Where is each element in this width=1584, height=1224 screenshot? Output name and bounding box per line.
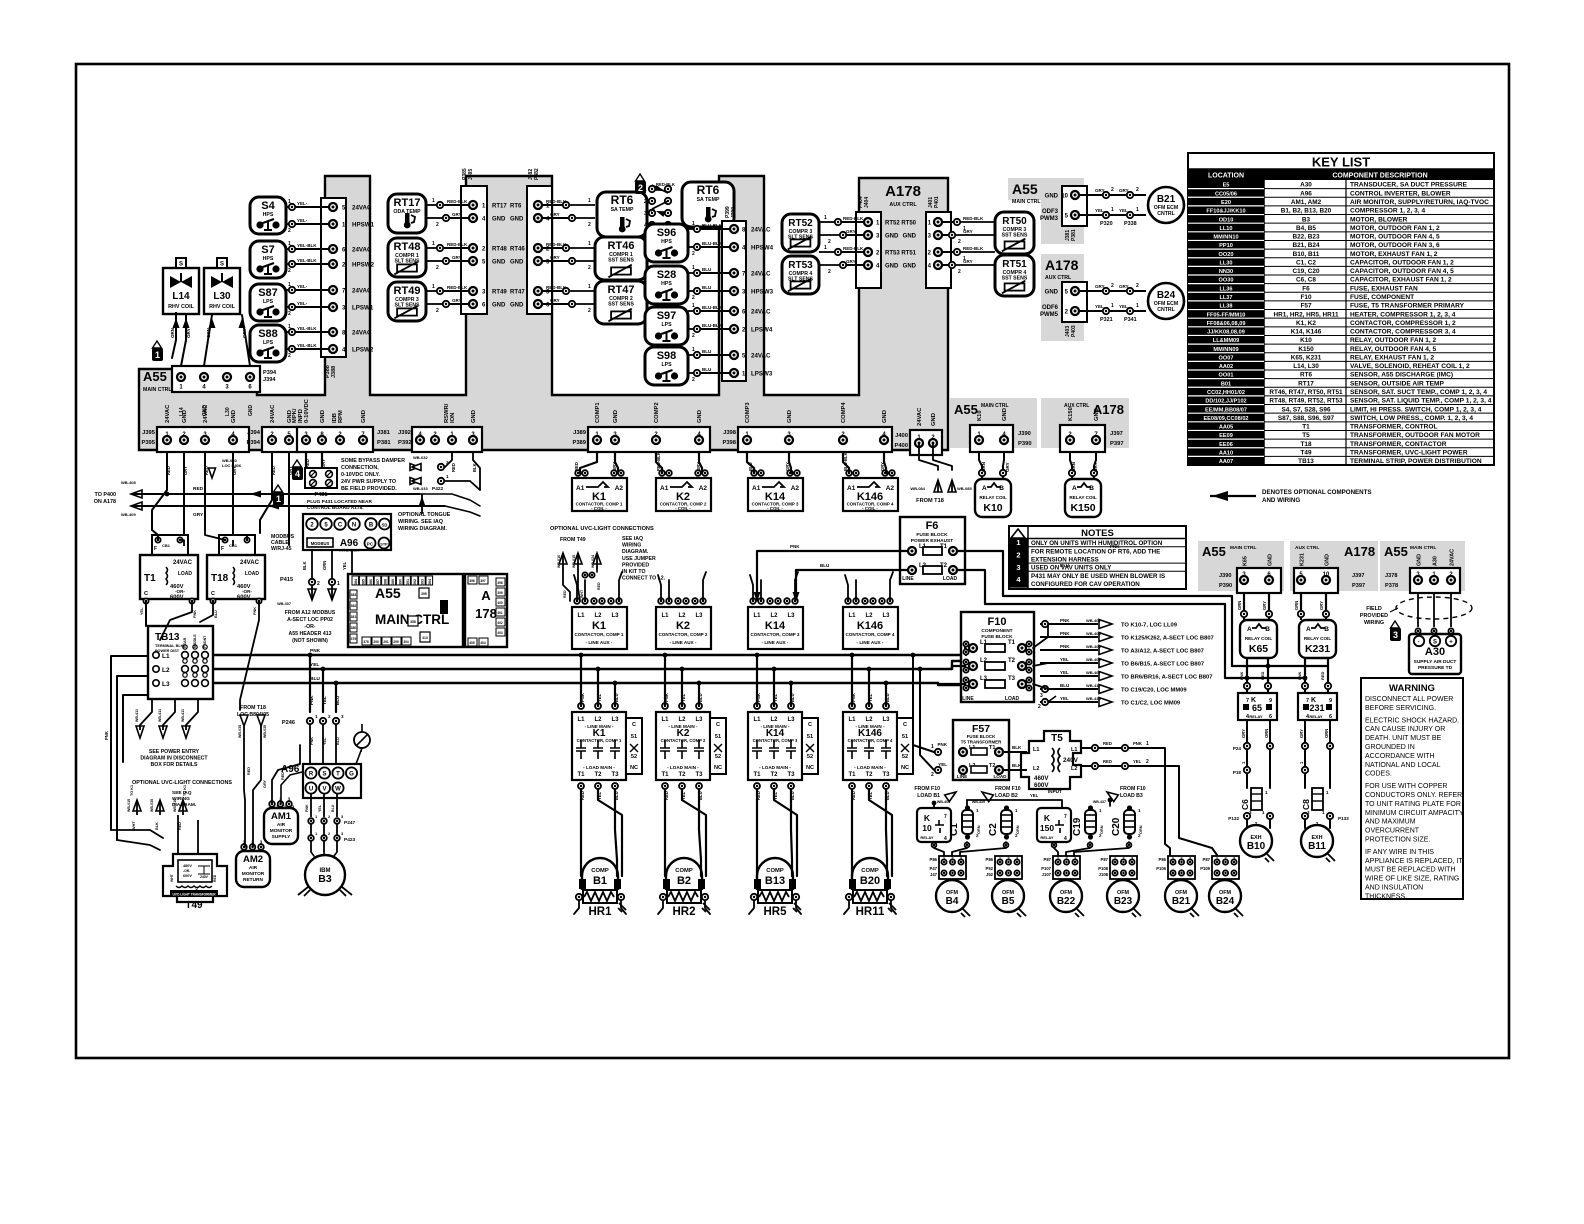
svg-text:AA02: AA02 xyxy=(1219,364,1233,370)
svg-text:RED-BLK: RED-BLK xyxy=(546,199,567,204)
svg-text:J381: J381 xyxy=(377,430,391,436)
svg-text:B2: B2 xyxy=(677,875,691,887)
svg-text:J404: J404 xyxy=(864,197,870,208)
svg-text:TO B6/B15, A-SECT LOC B807: TO B6/B15, A-SECT LOC B807 xyxy=(1121,662,1204,668)
svg-text:2: 2 xyxy=(644,199,647,205)
svg-text:COMPRESSOR 1, 2, 3, 4: COMPRESSOR 1, 2, 3, 4 xyxy=(1350,208,1425,215)
svg-text:T1: T1 xyxy=(577,772,585,778)
svg-text:CONTACTOR, COMPRESSOR 3, 4: CONTACTOR, COMPRESSOR 3, 4 xyxy=(1350,329,1456,336)
svg-text:(NOT SHOWN): (NOT SHOWN) xyxy=(292,638,328,644)
svg-text:RT53: RT53 xyxy=(885,251,900,257)
svg-text:YEL: YEL xyxy=(597,693,602,702)
svg-text:600V: 600V xyxy=(237,595,251,601)
svg-text:YEL-: YEL- xyxy=(297,301,308,306)
svg-text:GND: GND xyxy=(361,410,367,423)
svg-text:387: 387 xyxy=(376,579,380,585)
svg-text:CONTROL INVERTER, BLOWER: CONTROL INVERTER, BLOWER xyxy=(1350,190,1451,197)
svg-text:T2: T2 xyxy=(1008,658,1016,664)
svg-text:FF05-FF/MM10: FF05-FF/MM10 xyxy=(1207,312,1246,318)
svg-text:FIELD: FIELD xyxy=(1366,606,1382,612)
svg-text:RED: RED xyxy=(563,590,567,598)
svg-text:GRY: GRY xyxy=(1241,729,1246,738)
svg-text:1: 1 xyxy=(1172,857,1174,861)
svg-text:J47: J47 xyxy=(930,872,938,877)
svg-text:52: 52 xyxy=(902,754,908,760)
svg-text:TRANSFORMER, CONTROL: TRANSFORMER, CONTROL xyxy=(1350,424,1438,431)
svg-text:SD: SD xyxy=(382,523,388,528)
svg-text:52: 52 xyxy=(631,754,637,760)
svg-text:PNK: PNK xyxy=(310,737,314,745)
svg-text:K65: K65 xyxy=(1243,556,1249,566)
svg-text:VALVE, SOLENOID, REHEAT COIL 1: VALVE, SOLENOID, REHEAT COIL 1, 2 xyxy=(1350,363,1470,370)
svg-text:240V: 240V xyxy=(1063,757,1079,764)
svg-text:B21, B24: B21, B24 xyxy=(1293,242,1320,249)
svg-text:- LOAD MAIN -: - LOAD MAIN - xyxy=(583,765,615,770)
svg-text:F: F xyxy=(221,546,224,552)
svg-text:RPM: RPM xyxy=(338,410,344,423)
svg-text:3: 3 xyxy=(1074,857,1076,861)
svg-text:C8: C8 xyxy=(1301,799,1311,810)
svg-text:SA TEMP: SA TEMP xyxy=(697,197,720,203)
svg-text:L2: L2 xyxy=(1071,766,1077,772)
svg-text:GRN: GRN xyxy=(981,462,986,472)
svg-text:401: 401 xyxy=(497,611,503,615)
svg-text:381: 381 xyxy=(351,615,357,619)
svg-text:IF ANY WIRE IN THIS: IF ANY WIRE IN THIS xyxy=(1365,849,1434,856)
svg-text:RT46, RT47, RT50, RT51: RT46, RT47, RT50, RT51 xyxy=(1269,389,1343,396)
svg-text:A2: A2 xyxy=(886,485,895,492)
svg-text:RED-BLK: RED-BLK xyxy=(843,216,864,221)
svg-text:L3: L3 xyxy=(611,717,619,723)
svg-text:RT17: RT17 xyxy=(394,197,421,209)
svg-text:PROVIDED: PROVIDED xyxy=(622,562,649,568)
svg-text:T2: T2 xyxy=(989,763,995,769)
svg-text:RED-BLK: RED-BLK xyxy=(656,182,675,187)
svg-text:YEL-: YEL- xyxy=(297,284,308,289)
svg-text:RELAY COIL: RELAY COIL xyxy=(979,495,1007,500)
svg-text:- LINE AUX -: - LINE AUX - xyxy=(670,640,697,645)
svg-text:PNK: PNK xyxy=(1060,644,1070,649)
svg-text:RELAY, OUTDOOR FAN 1, 2: RELAY, OUTDOOR FAN 1, 2 xyxy=(1350,337,1437,344)
svg-text:SST SENS: SST SENS xyxy=(608,302,634,308)
svg-text:1: 1 xyxy=(588,241,591,247)
svg-text:HPSW3: HPSW3 xyxy=(751,289,774,296)
svg-text:CAPACITOR, EXHAUST FAN 1, 2: CAPACITOR, EXHAUST FAN 1, 2 xyxy=(1350,277,1452,284)
svg-text:PNK: PNK xyxy=(790,544,800,549)
svg-text:CONTACTOR, COMP 3: CONTACTOR, COMP 3 xyxy=(750,632,799,637)
svg-text:W: W xyxy=(335,787,341,793)
svg-text:LL30: LL30 xyxy=(1219,260,1232,266)
svg-text:- LINE AUX -: - LINE AUX - xyxy=(586,640,613,645)
svg-text:BLK: BLK xyxy=(1012,763,1022,768)
svg-text:2: 2 xyxy=(1136,283,1139,289)
svg-text:C: C xyxy=(716,722,720,728)
svg-text:2: 2 xyxy=(638,183,643,193)
svg-text:A55: A55 xyxy=(375,585,401,601)
svg-text:GND: GND xyxy=(1268,554,1274,566)
svg-text:24VAC: 24VAC xyxy=(352,247,372,254)
svg-text:386: 386 xyxy=(369,579,373,585)
svg-text:RT6: RT6 xyxy=(611,193,634,207)
svg-text:ODF6: ODF6 xyxy=(1042,305,1059,311)
svg-text:GND: GND xyxy=(885,234,899,240)
svg-text:P246: P246 xyxy=(282,720,295,726)
svg-text:WB-035: WB-035 xyxy=(263,725,267,738)
svg-text:TO C1/C2, LOC MM09: TO C1/C2, LOC MM09 xyxy=(1121,701,1181,707)
svg-text:RELAY COIL: RELAY COIL xyxy=(1069,495,1097,500)
svg-text:FUSE, T5 TRANSFORMER PRIMARY: FUSE, T5 TRANSFORMER PRIMARY xyxy=(1350,303,1465,310)
svg-text:24VAC: 24VAC xyxy=(352,330,372,337)
svg-text:LL&MM09: LL&MM09 xyxy=(1213,338,1239,344)
svg-text:YEL-BLK: YEL-BLK xyxy=(297,343,317,348)
svg-text:HR1, HR2, HR5, HR11: HR1, HR2, HR5, HR11 xyxy=(1274,311,1339,318)
svg-text:S28: S28 xyxy=(657,269,677,281)
svg-text:RELAY: RELAY xyxy=(920,835,934,840)
svg-text:7: 7 xyxy=(944,814,947,820)
svg-text:MAIN CTRL: MAIN CTRL xyxy=(1230,545,1256,551)
svg-text:A-SECT LOC PP02: A-SECT LOC PP02 xyxy=(287,617,333,623)
svg-text:2: 2 xyxy=(1111,283,1114,289)
svg-text:CONTACTOR, COMP 2: CONTACTOR, COMP 2 xyxy=(661,738,706,743)
svg-text:382: 382 xyxy=(351,604,357,608)
svg-text:A55: A55 xyxy=(143,369,167,384)
svg-text:A178: A178 xyxy=(1344,544,1375,559)
svg-text:SEE IAQ: SEE IAQ xyxy=(172,790,192,796)
svg-text:TB13: TB13 xyxy=(1298,458,1314,465)
svg-text:AIR: AIR xyxy=(249,865,258,871)
svg-text:GND: GND xyxy=(787,410,793,423)
svg-text:B21: B21 xyxy=(1157,194,1176,205)
svg-text:24VAC: 24VAC xyxy=(751,227,771,234)
svg-text:AM1, AM2: AM1, AM2 xyxy=(1291,199,1322,206)
svg-text:L1: L1 xyxy=(848,613,856,619)
svg-text:CC02,HH01/02: CC02,HH01/02 xyxy=(1207,390,1245,396)
svg-text:L1: L1 xyxy=(661,717,669,723)
svg-text:K14: K14 xyxy=(765,620,786,632)
svg-text:J392: J392 xyxy=(398,430,411,436)
svg-text:S: S xyxy=(179,262,183,268)
svg-text:HR11: HR11 xyxy=(856,906,885,918)
svg-text:RT47: RT47 xyxy=(608,284,635,296)
svg-text:1: 1 xyxy=(1016,538,1020,547)
svg-text:240V: 240V xyxy=(200,875,209,879)
svg-text:24VAC: 24VAC xyxy=(203,404,209,423)
svg-text:SA TEMP: SA TEMP xyxy=(611,207,634,213)
svg-text:TRANSFORMER, CONTACTOR: TRANSFORMER, CONTACTOR xyxy=(1350,441,1447,448)
svg-text:TRANSDUCER, SA DUCT PRESSURE: TRANSDUCER, SA DUCT PRESSURE xyxy=(1350,182,1468,189)
svg-text:BLU: BLU xyxy=(885,693,890,702)
svg-text:RT6: RT6 xyxy=(697,183,720,197)
svg-text:A178: A178 xyxy=(1045,257,1079,273)
svg-text:2: 2 xyxy=(1146,759,1149,765)
svg-text:STP: STP xyxy=(380,543,388,547)
svg-text:FROM T18: FROM T18 xyxy=(240,705,266,711)
svg-text:T1: T1 xyxy=(848,772,856,778)
svg-text:1: 1 xyxy=(288,241,291,247)
svg-text:FRONT: FRONT xyxy=(203,635,207,648)
svg-text:ODF3: ODF3 xyxy=(1042,209,1059,215)
svg-text:L1: L1 xyxy=(577,717,585,723)
svg-text:USED ON VAV UNITS ONLY: USED ON VAV UNITS ONLY xyxy=(1031,565,1112,572)
svg-text:BLU-BLK: BLU-BLK xyxy=(843,452,848,471)
svg-text:A178: A178 xyxy=(885,183,921,200)
svg-text:2: 2 xyxy=(588,308,591,314)
svg-text:CAN CAUSE INJURY OR: CAN CAUSE INJURY OR xyxy=(1365,726,1445,733)
svg-text:P247: P247 xyxy=(344,820,356,826)
svg-text:CAPACITOR, OUTDOOR FAN 4, 5: CAPACITOR, OUTDOOR FAN 4, 5 xyxy=(1350,268,1454,275)
svg-text:K65: K65 xyxy=(1249,643,1268,655)
svg-text:P422: P422 xyxy=(432,486,444,492)
svg-text:S87: S87 xyxy=(258,287,278,299)
svg-text:T5 TRANSFORMER: T5 TRANSFORMER xyxy=(961,740,1002,745)
svg-text:C19, C20: C19, C20 xyxy=(1293,268,1320,275)
svg-text:GRY: GRY xyxy=(1119,188,1129,193)
svg-text:P395: P395 xyxy=(141,440,155,446)
svg-text:L1: L1 xyxy=(162,653,170,660)
svg-text:600V: 600V xyxy=(1034,782,1049,789)
svg-text:HPSW1: HPSW1 xyxy=(352,222,375,229)
svg-text:GRY: GRY xyxy=(550,255,560,260)
svg-text:FROM A12 MODBUS: FROM A12 MODBUS xyxy=(285,610,336,616)
svg-text:RELAY, EXHAUST FAN 1, 2: RELAY, EXHAUST FAN 1, 2 xyxy=(1350,354,1434,361)
svg-text:C: C xyxy=(211,591,215,597)
svg-text:BLU: BLU xyxy=(748,462,753,471)
svg-text:MODBUS: MODBUS xyxy=(311,541,330,546)
svg-text:RELAY: RELAY xyxy=(1249,714,1263,719)
svg-text:GROUNDED IN: GROUNDED IN xyxy=(1365,744,1415,751)
svg-text:BLK: BLK xyxy=(1012,745,1022,750)
svg-text:YEL: YEL xyxy=(681,693,686,702)
svg-text:24VAC: 24VAC xyxy=(352,205,372,212)
svg-text:S: S xyxy=(322,772,326,778)
svg-text:J399: J399 xyxy=(731,207,737,218)
svg-text:GRY: GRY xyxy=(880,462,885,471)
svg-text:P381: P381 xyxy=(1071,229,1077,241)
svg-text:NC: NC xyxy=(630,765,638,771)
svg-text:C: C xyxy=(338,523,343,529)
svg-text:W/RJ-45: W/RJ-45 xyxy=(271,546,292,552)
svg-text:YEL: YEL xyxy=(773,693,778,702)
svg-text:CB1: CB1 xyxy=(162,543,171,548)
svg-text:PNK: PNK xyxy=(756,693,761,702)
svg-text:398: 398 xyxy=(497,581,503,585)
svg-text:BLK: BLK xyxy=(302,561,307,570)
svg-text:RED: RED xyxy=(451,463,456,472)
svg-text:L3: L3 xyxy=(695,717,703,723)
svg-text:C19: C19 xyxy=(1072,817,1083,836)
svg-text:B: B xyxy=(1089,485,1094,492)
svg-text:HPS: HPS xyxy=(263,256,274,262)
svg-text:1: 1 xyxy=(446,474,449,479)
svg-text:K: K xyxy=(924,813,931,823)
svg-text:2: 2 xyxy=(288,268,291,274)
svg-text:L2: L2 xyxy=(865,717,873,723)
svg-text:J394: J394 xyxy=(247,430,261,436)
svg-text:CAPACITOR, OUTDOOR FAN 1, 2: CAPACITOR, OUTDOOR FAN 1, 2 xyxy=(1350,259,1454,266)
svg-text:V: V xyxy=(322,787,326,793)
svg-text:AIR: AIR xyxy=(277,822,286,828)
svg-text:2: 2 xyxy=(436,222,439,228)
svg-text:2: 2 xyxy=(828,239,831,245)
svg-text:3: 3 xyxy=(341,714,344,719)
svg-text:DEATH. UNIT MUST BE: DEATH. UNIT MUST BE xyxy=(1365,735,1442,742)
svg-text:A96: A96 xyxy=(281,764,300,775)
svg-text:CONTACTOR, COMP 4: CONTACTOR, COMP 4 xyxy=(848,738,893,743)
svg-text:FROM F10: FROM F10 xyxy=(995,786,1021,792)
svg-text:YEL-BLK: YEL-BLK xyxy=(297,326,317,331)
svg-text:ORN: ORN xyxy=(170,328,175,338)
svg-text:T5: T5 xyxy=(1051,733,1063,744)
svg-text:1: 1 xyxy=(288,282,291,288)
svg-text:WB-437: WB-437 xyxy=(1086,683,1101,688)
svg-text:2: 2 xyxy=(692,251,695,257)
svg-text:NC: NC xyxy=(714,765,722,771)
svg-text:AUX CTRL: AUX CTRL xyxy=(1295,545,1319,551)
svg-text:L1: L1 xyxy=(661,613,669,619)
svg-text:L30: L30 xyxy=(213,291,231,302)
svg-text:AIR MONITOR, SUPPLY/RETURN, IA: AIR MONITOR, SUPPLY/RETURN, IAQ-TVOC xyxy=(1350,199,1489,206)
svg-text:YEL: YEL xyxy=(1060,657,1069,662)
svg-text:290: 290 xyxy=(373,640,379,644)
svg-text:PNK: PNK xyxy=(937,742,947,747)
svg-text:GRY: GRY xyxy=(1119,284,1129,289)
svg-text:WB-406: WB-406 xyxy=(1086,657,1101,662)
svg-text:1: 1 xyxy=(432,198,435,204)
svg-text:A: A xyxy=(481,588,491,603)
svg-text:TO BR6/BR16, A-SECT LOC B807: TO BR6/BR16, A-SECT LOC B807 xyxy=(1121,675,1212,681)
svg-text:GRY: GRY xyxy=(242,328,247,338)
svg-text:2: 2 xyxy=(288,353,291,359)
svg-text:WB-438: WB-438 xyxy=(1086,696,1101,701)
svg-text:L2: L2 xyxy=(1033,766,1039,772)
svg-text:2: 2 xyxy=(436,265,439,271)
svg-text:GND: GND xyxy=(613,410,619,423)
svg-text:GRY: GRY xyxy=(696,462,701,471)
svg-text:384: 384 xyxy=(354,579,358,585)
svg-text:J388: J388 xyxy=(331,366,337,378)
svg-text:RT52: RT52 xyxy=(788,218,813,229)
svg-text:BLU: BLU xyxy=(790,693,795,702)
svg-text:GRY: GRY xyxy=(1095,188,1105,193)
svg-text:P390: P390 xyxy=(1219,583,1232,589)
svg-text:CODES.: CODES. xyxy=(1365,771,1392,778)
svg-text:389: 389 xyxy=(391,579,395,585)
svg-text:CONTACTOR, COMP 1: CONTACTOR, COMP 1 xyxy=(574,632,623,637)
svg-text:AM2: AM2 xyxy=(243,854,263,865)
svg-text:GND: GND xyxy=(1094,408,1100,421)
svg-text:WB-033: WB-033 xyxy=(413,486,428,491)
svg-text:T2: T2 xyxy=(865,772,873,778)
svg-text:J107: J107 xyxy=(1042,872,1052,877)
svg-text:RETURN: RETURN xyxy=(243,877,264,883)
svg-text:L1: L1 xyxy=(1071,747,1077,753)
svg-text:1: 1 xyxy=(588,284,591,290)
svg-text:L1: L1 xyxy=(753,717,761,723)
svg-text:GND: GND xyxy=(248,405,254,417)
svg-text:P106: P106 xyxy=(1156,866,1166,871)
svg-text:LPSW3: LPSW3 xyxy=(751,371,773,378)
svg-text:GRN: GRN xyxy=(1237,601,1242,610)
svg-text:380: 380 xyxy=(351,626,357,630)
svg-text:PNK: PNK xyxy=(309,695,314,705)
svg-text:RELAY COIL: RELAY COIL xyxy=(1304,636,1332,641)
svg-text:A: A xyxy=(1306,626,1311,633)
svg-text:HPS: HPS xyxy=(661,239,672,245)
svg-text:P86: P86 xyxy=(986,857,994,862)
svg-text:B22, B23: B22, B23 xyxy=(1293,234,1320,241)
svg-text:WHT: WHT xyxy=(132,821,136,830)
svg-text:P87: P87 xyxy=(1044,857,1052,862)
svg-text:1: 1 xyxy=(588,198,591,204)
svg-text:2: 2 xyxy=(317,581,320,587)
svg-text:WB-407: WB-407 xyxy=(1086,670,1101,675)
svg-text:24VAC: 24VAC xyxy=(352,288,372,295)
svg-text:RT47: RT47 xyxy=(510,290,525,296)
svg-text:BLU: BLU xyxy=(820,563,829,568)
svg-text:F10: F10 xyxy=(1300,294,1311,301)
svg-text:P24: P24 xyxy=(1233,746,1242,751)
svg-text:COMP: COMP xyxy=(591,868,609,874)
svg-text:COMPONENT: COMPONENT xyxy=(981,628,1012,634)
svg-text:3: 3 xyxy=(1040,693,1043,699)
svg-text:RED: RED xyxy=(247,767,251,775)
svg-text:CONTACTOR, COMP 4: CONTACTOR, COMP 4 xyxy=(845,632,894,637)
svg-text:MAIN CTRL: MAIN CTRL xyxy=(1012,199,1041,205)
svg-text:2: 2 xyxy=(1007,857,1009,861)
svg-text:RED: RED xyxy=(166,466,171,475)
svg-text:P431 MAY ONLY BE USED WHEN BLO: P431 MAY ONLY BE USED WHEN BLOWER IS xyxy=(1031,573,1165,580)
svg-text:2: 2 xyxy=(692,333,695,339)
svg-text:P400: P400 xyxy=(894,443,908,449)
svg-text:2: 2 xyxy=(951,857,953,861)
svg-text:PNK: PNK xyxy=(580,693,585,702)
svg-text:AND WIRING: AND WIRING xyxy=(1262,497,1300,504)
svg-text:LPSW1: LPSW1 xyxy=(352,305,374,312)
svg-text:RED-BLK: RED-BLK xyxy=(963,216,984,221)
svg-text:A1: A1 xyxy=(576,485,585,492)
svg-text:51: 51 xyxy=(715,734,721,740)
svg-text:S7: S7 xyxy=(261,244,274,256)
svg-text:P392: P392 xyxy=(398,440,412,446)
svg-text:C: C xyxy=(903,722,907,728)
svg-text:U: U xyxy=(309,787,313,793)
svg-text:DIAGRAM IN DISCONNECT: DIAGRAM IN DISCONNECT xyxy=(140,756,208,762)
svg-text:RT49: RT49 xyxy=(394,285,421,297)
svg-text:1: 1 xyxy=(1114,857,1116,861)
svg-text:T2: T2 xyxy=(770,772,778,778)
svg-text:DD/102,JJ/P102: DD/102,JJ/P102 xyxy=(1205,399,1246,405)
svg-text:RED: RED xyxy=(271,466,276,475)
svg-text:L1: L1 xyxy=(753,613,761,619)
svg-text:T1: T1 xyxy=(661,772,669,778)
svg-text:GND: GND xyxy=(471,410,477,423)
svg-text:P398: P398 xyxy=(722,440,736,446)
svg-text:C1, C2: C1, C2 xyxy=(1296,259,1316,266)
svg-text:B: B xyxy=(1324,626,1329,633)
svg-text:PROVIDED: PROVIDED xyxy=(1360,613,1388,619)
svg-text:AND MAXIMUM: AND MAXIMUM xyxy=(1365,819,1416,826)
svg-text:NC: NC xyxy=(901,765,909,771)
svg-text:2: 2 xyxy=(1224,857,1226,861)
svg-text:ORN: ORN xyxy=(1016,825,1020,834)
svg-text:YEL-BLK: YEL-BLK xyxy=(297,243,317,248)
svg-text:L2: L2 xyxy=(594,613,602,619)
svg-text:BLU: BLU xyxy=(614,693,619,702)
svg-text:OO30: OO30 xyxy=(1219,278,1234,284)
svg-text:1: 1 xyxy=(692,265,695,271)
svg-text:396: 396 xyxy=(469,579,475,583)
svg-text:YEL: YEL xyxy=(140,607,144,615)
